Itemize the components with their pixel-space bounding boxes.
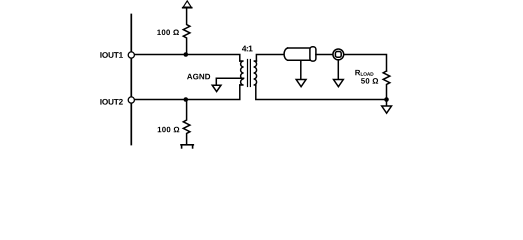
transformer T1 core lines: [248, 60, 251, 87]
pin IOUT1 terminal circle: [128, 52, 134, 58]
filter module body (cylinder): [284, 48, 288, 60]
resistor RLOAD 50 ohm: [383, 71, 390, 100]
filter module right end ring: [310, 47, 316, 61]
label R1 value 100 ohm: [157, 30, 179, 36]
ground AGND bar symbol under R2: [181, 145, 193, 148]
ground arrow under filter: [296, 80, 306, 87]
wire filter case to ground: [300, 60, 302, 79]
label IOUT2: [100, 99, 122, 105]
resistor R2 100 ohm pull-down: [183, 100, 190, 145]
ground arrow under connector: [334, 80, 344, 87]
transformer T1 primary winding (4 arcs, bulge left): [240, 61, 244, 85]
node junction IOUT1 / R1: [184, 52, 189, 57]
label AGND: [187, 74, 210, 80]
label IOUT1: [100, 52, 123, 58]
connector J1 inner contact: [335, 52, 341, 58]
wire left DAC output rail: [130, 15, 132, 145]
power supply terminal (up triangle): [183, 1, 191, 7]
connector J1 outer circle (coax jack): [333, 49, 344, 60]
wire secondary top to filter: [256, 55, 283, 62]
ground AGND arrow (down open triangle): [212, 85, 221, 91]
label RLOAD: [355, 70, 360, 75]
wire connector shield to ground: [337, 60, 339, 79]
node junction IOUT2 / R2: [184, 97, 189, 102]
wire AGND center tap: [216, 78, 243, 85]
label transformer ratio 4:1: [242, 46, 253, 52]
resistor R1 100 ohm pull-up: [183, 9, 190, 55]
wire IOUT1 net: [135, 55, 240, 62]
wire connector to load resistor: [344, 55, 387, 72]
label RLOAD value 50 ohm: [361, 78, 378, 84]
transformer T1 secondary winding (4 arcs, bulge right): [254, 61, 257, 85]
node junction RLOAD / bottom rail: [384, 97, 389, 102]
wire filter to connector J1: [316, 54, 333, 56]
pin IOUT2 terminal circle: [128, 97, 134, 103]
wire secondary bottom rail: [256, 85, 387, 100]
wire IOUT2 net: [135, 85, 240, 100]
label R2 value 100 ohm: [158, 127, 180, 133]
wire junction to ground: [386, 100, 388, 107]
ground arrow under RLOAD: [382, 106, 392, 113]
